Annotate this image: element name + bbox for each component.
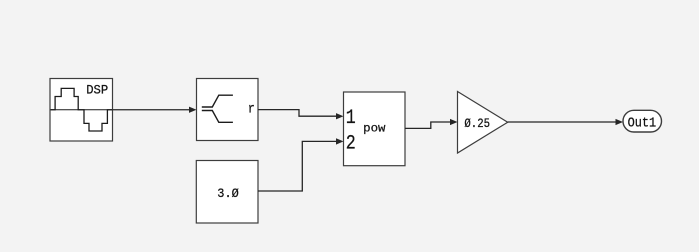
block Out1 port xyxy=(623,110,662,132)
svg-text:1: 1 xyxy=(346,107,356,130)
DSP icon staircase waveform xyxy=(51,88,112,131)
arrowhead into pow port 1 xyxy=(336,113,344,119)
svg-text:Ø.25: Ø.25 xyxy=(464,117,490,131)
svg-text:2: 2 xyxy=(346,133,356,156)
svg-text:pow: pow xyxy=(363,122,386,136)
svg-text:DSP: DSP xyxy=(86,84,108,98)
arrowhead into gain xyxy=(450,119,458,125)
block Constant 3.0 body xyxy=(196,161,258,224)
wire DSP to converter xyxy=(113,109,190,111)
converter icon lower fork xyxy=(202,111,233,123)
DSP icon midline xyxy=(51,109,112,111)
wire converter to pow input 1 xyxy=(258,110,337,117)
block Gain triangle xyxy=(458,92,508,154)
wire gain to Out1 xyxy=(508,121,616,123)
svg-text:3.Ø: 3.Ø xyxy=(217,187,239,201)
block pow (Math Function) body xyxy=(344,92,406,166)
converter icon upper fork xyxy=(202,95,233,107)
arrowhead into pow port 2 xyxy=(336,138,344,144)
wire pow to gain xyxy=(405,122,451,128)
block Signal From Workspace (DSP source) body xyxy=(50,79,113,142)
wire constant to pow input 2 xyxy=(258,141,337,191)
block converter body xyxy=(197,79,259,141)
svg-text:r: r xyxy=(248,102,255,118)
svg-text:Out1: Out1 xyxy=(628,116,657,131)
arrowhead into converter xyxy=(189,107,197,113)
arrowhead into Out1 xyxy=(616,119,624,125)
